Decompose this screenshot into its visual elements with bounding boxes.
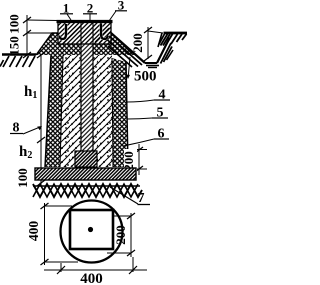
pit circle (61, 201, 123, 263)
anchor hook right (101, 24, 108, 39)
svg-text:100: 100 (15, 168, 30, 188)
500 label with leader (126, 57, 157, 85)
right 200 dim (trench depth) (148, 27, 163, 59)
concrete left edge (60, 55, 63, 167)
label 4 (127, 88, 170, 103)
trench bottom (145, 63, 159, 68)
mound (banket) around post at ground level, cross-hatched (36, 33, 136, 55)
compacted earth zigzag under slab (33, 184, 142, 197)
svg-text:150: 150 (7, 36, 22, 56)
anchor hook left (60, 24, 67, 39)
top-left dimension chain 100/150 (27, 15, 58, 55)
svg-text:100: 100 (7, 14, 22, 34)
label 3 (109, 0, 127, 21)
spoil bank wedge at right ground (158, 33, 187, 47)
label 2 (83, 1, 97, 21)
post foot block (75, 151, 97, 167)
svg-text:400: 400 (80, 271, 103, 285)
svg-text:200: 200 (113, 225, 128, 245)
svg-text:500: 500 (134, 69, 157, 85)
svg-text:200: 200 (130, 33, 145, 53)
concrete right edge (112, 58, 113, 167)
left 400 dim (45, 203, 79, 265)
dim text 200 (bottom-right, rotated) (124, 149, 137, 173)
right 200 dim (plan) (107, 213, 131, 257)
ground line left (2, 53, 36, 55)
post square (70, 210, 113, 249)
backfill left band (45, 55, 63, 167)
label 6 (123, 127, 169, 147)
pit left wall (45, 55, 51, 167)
cap block on top of post (57, 21, 113, 44)
mound right slope / trench left slope band (108, 33, 146, 67)
bottom 400 dim (plan) (44, 257, 147, 272)
svg-text:7: 7 (138, 191, 145, 206)
label 7 (110, 187, 150, 206)
earth hatch strokes below left ground (0, 56, 35, 67)
left long dimension line (40, 55, 42, 187)
bottom-right 200 dim (slab) (128, 144, 147, 175)
concrete fill in pit around post (60, 55, 113, 167)
label 5 (127, 106, 168, 121)
label 8 with leader (10, 121, 42, 136)
pit right wall (126, 62, 128, 167)
svg-text:400: 400 (26, 221, 41, 242)
center dot (88, 227, 93, 232)
post (column) (81, 20, 93, 157)
backfill right band (112, 58, 128, 167)
label 1 (60, 1, 73, 21)
trench right slope with hatch (157, 38, 173, 64)
base slab (35, 168, 136, 180)
